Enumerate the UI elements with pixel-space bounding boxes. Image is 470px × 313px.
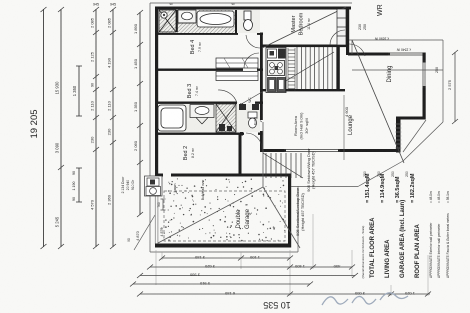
kitchen fridge dark (278, 49, 286, 59)
bathroom wc (248, 112, 257, 128)
roof hip garage right (263, 187, 300, 248)
bottom dim line 2 (150, 266, 352, 268)
garage right wall (288, 174, 291, 248)
bottom dim line 3 (140, 275, 355, 277)
dimension line 3 short a (78, 66, 80, 116)
roof valley entry b (238, 106, 262, 122)
door arc wc ensuite (246, 35, 260, 48)
lounge bottom wall (262, 149, 286, 152)
label 4600 dim (343, 95, 345, 160)
master right wall (346, 7, 349, 56)
roof line WR top (349, 39, 443, 41)
roof diagonal lounge (352, 40, 404, 163)
roof overhang left (149, 3, 151, 252)
dimension line 4 (95, 9, 97, 247)
door arc master (330, 30, 345, 45)
dining right dim line (454, 52, 456, 122)
door arc porch (349, 44, 365, 56)
bottom dim line 5 (140, 293, 430, 295)
shower dark taps (219, 124, 225, 131)
bath strip bottom wall (155, 133, 244, 135)
bed4 robe (216, 58, 258, 68)
bottom dim line 1 (162, 257, 290, 259)
roof overhang top (150, 2, 352, 4)
dimension line overall left (43, 9, 45, 247)
pantry wall (337, 47, 340, 91)
master robe (337, 9, 346, 45)
pantry shelving (288, 48, 295, 91)
driveway splay (134, 215, 155, 250)
roof line under lounge (358, 161, 403, 187)
bathroom shower hatch (216, 104, 236, 132)
dimension line 2 (60, 9, 62, 247)
wc east wall (240, 104, 243, 136)
kitchen cooktop (268, 61, 285, 76)
door arc bed3b (218, 90, 237, 103)
kitchen west wall (260, 33, 263, 120)
roof overhang bottom (150, 251, 298, 253)
garage bottom wall (155, 244, 291, 248)
dimension line 6 (139, 12, 141, 215)
house top wall (155, 7, 351, 10)
roof ridge dining horizontal (352, 69, 443, 71)
bottom dim ticks (130, 256, 431, 297)
bottom dim labels (189, 255, 415, 296)
dining top window (388, 52, 425, 54)
handwriting squiggle (322, 293, 408, 305)
kitchen top cupboard (268, 49, 277, 58)
master bottom wall (262, 45, 349, 48)
dining bottom wall (396, 117, 425, 120)
door arc entry (246, 133, 262, 149)
stairs treads lower (263, 153, 303, 178)
stairs treads upper (297, 47, 337, 89)
bathroom vanity (190, 105, 214, 125)
roof diagonal dining notch (403, 120, 426, 152)
roof hip garage left (158, 187, 263, 243)
laundry box (145, 176, 163, 196)
ensuite vanity (178, 10, 196, 23)
garage stipple (161, 178, 285, 241)
roof line porch vertical (351, 40, 353, 54)
roof valley entry a (238, 92, 262, 106)
roof ridge garage vertical (262, 122, 264, 187)
ensuite shower (159, 10, 176, 32)
bath strip top wall (155, 102, 237, 104)
ensuite bath (197, 11, 234, 27)
wet area tint (159, 10, 260, 33)
garage top wall (155, 174, 163, 177)
ensuite bottom wall (155, 33, 238, 35)
roof diagonal dining corner (403, 122, 443, 161)
dimension line 3 short b (78, 168, 80, 202)
bathroom bath (158, 105, 186, 131)
lounge window sliding door (284, 149, 340, 151)
kitchen bench (266, 48, 286, 93)
bottom extension lines (156, 214, 428, 296)
dimension line 5 (112, 9, 114, 247)
dining top wall (348, 53, 390, 56)
ensuite wc (244, 11, 253, 31)
laundry dim bracket (162, 199, 164, 210)
garage dashed outline (164, 191, 285, 241)
dining right window (422, 60, 424, 88)
lounge right wall (396, 117, 401, 153)
ensuite hatch floor (159, 10, 235, 33)
roof ridge master diagonal (262, 7, 346, 48)
house left wall (155, 8, 158, 176)
dining right wall (423, 53, 426, 63)
stairs arrow diagonal (284, 52, 334, 82)
bottom dim line 4 (133, 283, 310, 285)
bed2 east wall (239, 134, 242, 177)
bathroom dark cupboards (239, 104, 246, 110)
roof overhang right of garage (297, 186, 299, 252)
roof line right (442, 40, 444, 122)
bed3 robe (216, 72, 258, 81)
ensuite divider 2 (235, 10, 237, 33)
paper noise (0, 0, 1, 1)
door arc bed4 (244, 53, 259, 68)
wall between bed4 bed3 (155, 69, 243, 71)
stairs bottom wall (262, 89, 345, 91)
kitchen sink double (268, 78, 277, 92)
ensuite divider 1 (176, 10, 178, 32)
